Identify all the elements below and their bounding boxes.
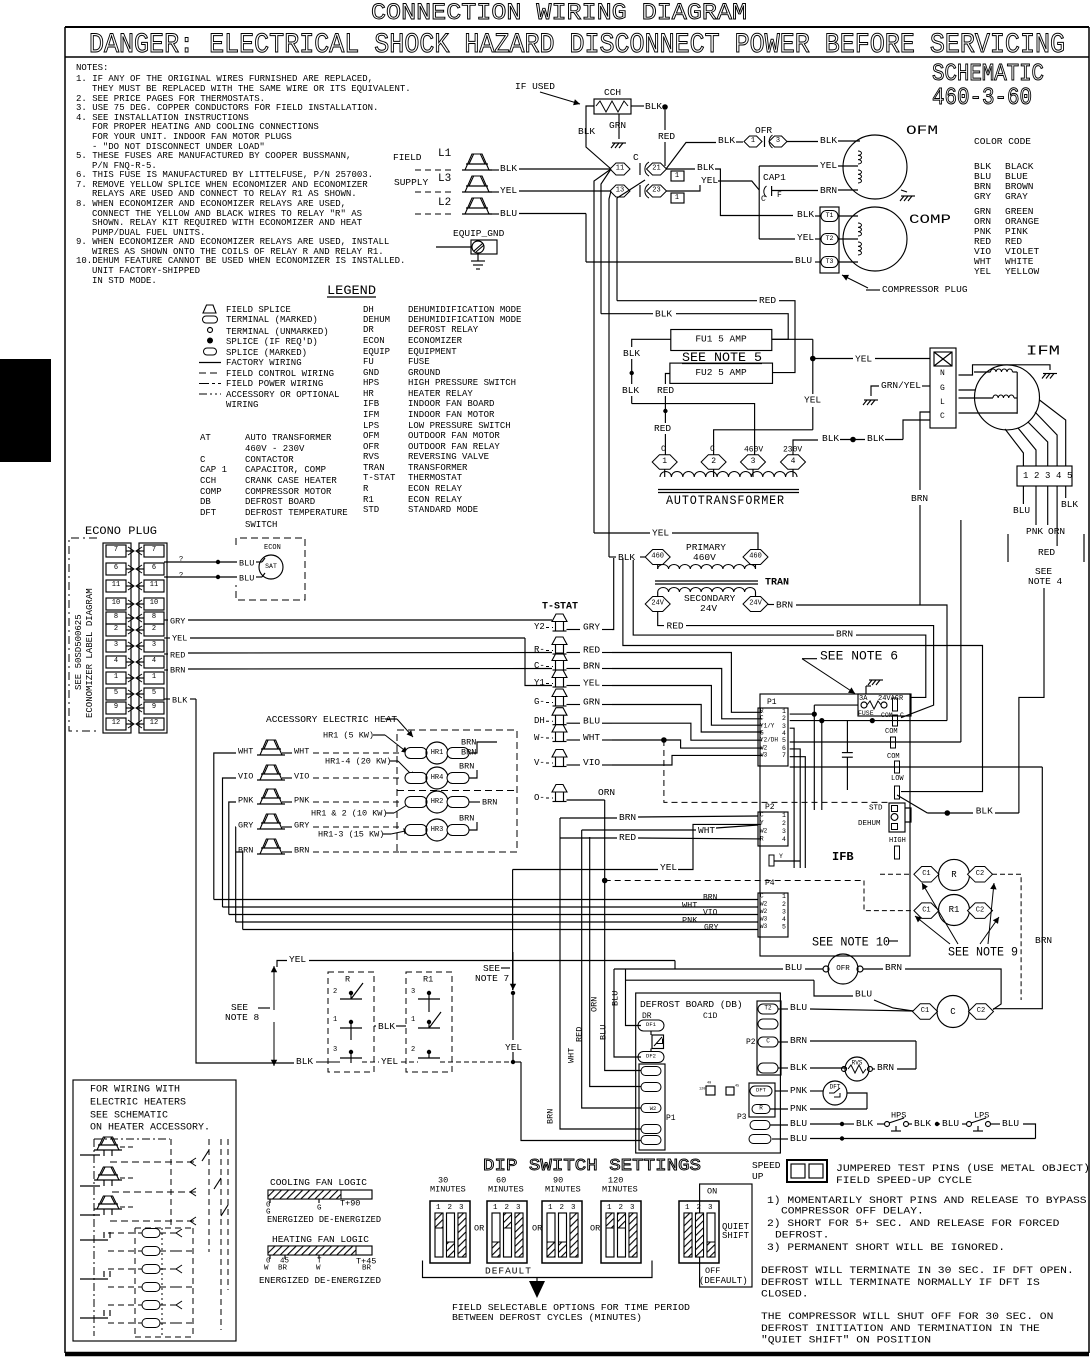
svg-text:SPLICE (MARKED): SPLICE (MARKED) (226, 348, 307, 358)
svg-text:P1: P1 (767, 698, 777, 707)
svg-text:L3: L3 (438, 173, 451, 185)
svg-text:EQUIP: EQUIP (363, 347, 390, 357)
frame border (65, 26, 1089, 28)
svg-text:2: 2 (711, 457, 716, 466)
svg-text:STANDARD MODE: STANDARD MODE (408, 505, 478, 515)
svg-text:COMP: COMP (909, 212, 951, 227)
black tab left margin (0, 359, 51, 462)
svg-text:R1: R1 (363, 495, 374, 505)
svg-text:2: 2 (448, 1204, 453, 1212)
terminal box 1 top (671, 171, 684, 181)
svg-text:BRN: BRN (459, 761, 474, 771)
wire BRN t-stat to P1 C (612, 669, 762, 719)
heater relay HR3 (405, 825, 427, 836)
svg-text:OFR: OFR (836, 965, 850, 973)
bracket to arrow (423, 1261, 653, 1278)
svg-text:7: 7 (152, 546, 156, 554)
svg-text:NOTE 4: NOTE 4 (1028, 576, 1063, 587)
svg-text:6: 6 (152, 564, 156, 572)
svg-text:WHT: WHT (682, 900, 697, 910)
econ SAT sensor (259, 555, 283, 579)
wire see note 4 to IFB BLK (1019, 588, 1044, 813)
svg-text:1: 1 (333, 1016, 337, 1024)
svg-text:1: 1 (782, 812, 786, 819)
svg-text:4: 4 (152, 657, 156, 665)
wire BLU to DF1 (626, 980, 642, 1025)
svg-text:460V - 230V: 460V - 230V (245, 444, 305, 454)
econo pin 2 right (144, 624, 164, 636)
svg-text:CONNECTION WIRING DIAGRAM: CONNECTION WIRING DIAGRAM (371, 0, 747, 26)
svg-text:DF1: DF1 (646, 1021, 657, 1028)
quiet shift outer box (700, 1184, 752, 1287)
svg-text:BRN: BRN (703, 894, 718, 903)
svg-text:LEGEND: LEGEND (327, 283, 376, 298)
svg-text:RED: RED (619, 832, 636, 843)
svg-text:RED: RED (583, 645, 600, 656)
svg-text:DFT: DFT (756, 1087, 767, 1094)
arrow to CCH (540, 92, 580, 104)
heater relay HR2 (405, 797, 427, 808)
compressor plug box (820, 207, 839, 273)
svg-text:W-: W- (534, 733, 545, 743)
svg-text:ECONOMIZER LABEL DIAGRAM: ECONOMIZER LABEL DIAGRAM (85, 588, 95, 718)
defrost relay component (650, 1031, 652, 1035)
svg-text:SEE NOTE 10: SEE NOTE 10 (812, 935, 890, 949)
wire ORN from t-stat O to defrost P1 (602, 878, 608, 884)
econo pin 12 right (144, 718, 164, 730)
svg-text:COMPRESSOR PLUG: COMPRESSOR PLUG (882, 284, 968, 295)
svg-text:?: ? (179, 572, 183, 580)
svg-text:WHT: WHT (294, 746, 309, 756)
svg-text:DEFROST TEMPERATURE: DEFROST TEMPERATURE (245, 508, 348, 518)
svg-text:YEL: YEL (172, 633, 187, 643)
svg-text:T-STAT: T-STAT (363, 473, 396, 483)
svg-text:10.DEHUM FEATURE CANNOT BE USE: 10.DEHUM FEATURE CANNOT BE USED WHEN ECO… (76, 256, 405, 266)
defrost board lower terminals (750, 1121, 770, 1130)
svg-text:BLK: BLK (655, 309, 672, 320)
econ relay R row (914, 867, 939, 883)
econo pin 11 right (144, 580, 164, 592)
svg-text:3. USE 75 DEG. COPPER CONDUCTO: 3. USE 75 DEG. COPPER CONDUCTORS FOR FIE… (76, 103, 378, 113)
svg-text:DEHUMIDIFICATION MODE: DEHUMIDIFICATION MODE (408, 305, 521, 315)
wire BLK from IFB to see note 4 drop (945, 810, 951, 816)
svg-text:G: G (317, 1205, 322, 1213)
econo pin 4 right (144, 656, 164, 668)
cooling fan logic bar (268, 1190, 372, 1199)
ground right of IFM (1043, 373, 1057, 375)
svg-text:COMPRESSOR OFF DELAY.: COMPRESSOR OFF DELAY. (781, 1205, 924, 1217)
svg-text:PNK: PNK (682, 915, 698, 925)
svg-text:YEL: YEL (505, 1042, 522, 1053)
svg-text:BLU: BLU (610, 991, 620, 1006)
transformer primary terminal 460 left (645, 550, 670, 565)
svg-text:YEL: YEL (701, 175, 718, 186)
svg-text:BLU: BLU (795, 255, 812, 266)
svg-text:BR: BR (278, 1265, 288, 1273)
svg-text:3: 3 (776, 137, 780, 145)
svg-text:6: 6 (782, 745, 786, 752)
svg-text:SPLICE (IF REQ'D): SPLICE (IF REQ'D) (226, 337, 318, 347)
heat wires vertical drops to bus (214, 753, 236, 900)
svg-text:Y1/Y: Y1/Y (760, 723, 775, 730)
svg-text:VIO: VIO (238, 771, 253, 781)
svg-text:OR: OR (474, 1223, 484, 1233)
svg-text:T2: T2 (764, 1005, 772, 1012)
svg-text:21: 21 (652, 165, 660, 173)
wire from P1 R pin to fuse (790, 713, 815, 715)
wire VIO t-stat to P1 W3 (612, 755, 762, 765)
svg-text:1: 1 (1023, 471, 1028, 481)
wire RED drop to defrost P1 (590, 837, 641, 1087)
wire BLU from LPS corner down to return (1023, 1124, 1036, 1139)
svg-text:BLU: BLU (239, 558, 254, 568)
svg-text:P2: P2 (765, 803, 775, 812)
svg-text:VIO: VIO (703, 909, 718, 918)
svg-text:REVERSING VALVE: REVERSING VALVE (408, 452, 489, 462)
svg-text:8: 8 (152, 613, 156, 621)
svg-text:ECON: ECON (363, 336, 385, 346)
svg-text:WHT: WHT (583, 732, 600, 743)
wire see note 4 to LPS BLU (1044, 1123, 1046, 1125)
field splice L1 (415, 169, 455, 171)
svg-text:BLK: BLK (790, 1062, 807, 1073)
svg-text:CRANK CASE HEATER: CRANK CASE HEATER (245, 476, 337, 486)
svg-text:DEHUMIDIFICATION MODE: DEHUMIDIFICATION MODE (408, 315, 521, 325)
svg-text:24VAC: 24VAC (878, 695, 899, 703)
svg-text:ECON RELAY: ECON RELAY (408, 484, 463, 494)
svg-text:EQUIPMENT: EQUIPMENT (408, 347, 457, 357)
transformer secondary winding (658, 588, 756, 593)
svg-text:MINUTES: MINUTES (430, 1184, 466, 1194)
svg-text:ORN: ORN (598, 787, 615, 798)
svg-text:T+90: T+90 (340, 1198, 360, 1208)
transformer secondary terminal 24V left (645, 597, 670, 612)
svg-text:C: C (950, 1007, 956, 1017)
svg-text:SAT: SAT (265, 563, 277, 570)
svg-text:24V: 24V (700, 603, 717, 614)
svg-text:SEE NOTE 9: SEE NOTE 9 (948, 945, 1018, 959)
svg-text:IFB: IFB (832, 850, 854, 864)
compressor terminal T2 (821, 234, 838, 245)
svg-text:23: 23 (652, 187, 660, 195)
svg-text:(DEFAULT): (DEFAULT) (699, 1276, 748, 1286)
svg-text:HR1-3 (15 KW): HR1-3 (15 KW) (318, 829, 384, 839)
defrost thermostat DFT (823, 1081, 847, 1105)
legend field power wiring symbol (199, 383, 221, 385)
svg-text:RELAYS ARE USED AND CONNECT TO: RELAYS ARE USED AND CONNECT TO RELAY R1 … (92, 189, 357, 199)
svg-text:YEL: YEL (381, 1056, 398, 1067)
svg-text:3: 3 (782, 908, 786, 915)
svg-text:2: 2 (505, 1204, 510, 1212)
wire VIO dashed to HR (313, 777, 400, 779)
svg-text:5: 5 (1067, 471, 1072, 481)
svg-text:2: 2 (114, 625, 118, 633)
svg-text:BRN: BRN (885, 962, 902, 973)
contact bars 13-23 (639, 185, 641, 197)
econo plug left column (103, 543, 131, 733)
svg-text:BRN: BRN (461, 747, 476, 757)
svg-text:BRN: BRN (238, 845, 253, 855)
svg-text:3: 3 (751, 457, 756, 466)
svg-text:BLK: BLK (822, 433, 839, 444)
defrost board P2 connector (757, 1001, 781, 1075)
svg-text:IN STD MODE.: IN STD MODE. (92, 276, 157, 286)
svg-text:460: 460 (651, 553, 664, 561)
svg-text:R: R (363, 484, 369, 494)
contactor terminal 23 (647, 185, 667, 197)
svg-text:G: G (760, 730, 764, 737)
compressor terminal T3 (821, 257, 838, 268)
svg-text:PNK: PNK (790, 1103, 807, 1114)
svg-text:BRN: BRN (459, 813, 474, 823)
svg-text:DFT: DFT (200, 508, 217, 518)
econo pin 9 right (144, 702, 164, 714)
svg-text:5: 5 (152, 689, 156, 697)
wire YEL drop to defrost P1 bottom (521, 1062, 641, 1141)
wire WHT t-stat to P1 W2 (612, 740, 762, 748)
svg-text:ECONOMIZER: ECONOMIZER (408, 336, 463, 346)
svg-text:2: 2 (697, 1204, 702, 1212)
svg-text:YEL: YEL (289, 954, 306, 965)
ground right of OFM (901, 195, 915, 197)
svg-text:PNK: PNK (294, 795, 310, 805)
svg-text:SPEED: SPEED (752, 1160, 781, 1171)
svg-text:7: 7 (782, 752, 786, 759)
transformer primary terminal 460 right (743, 550, 768, 565)
svg-text:YEL: YEL (500, 185, 517, 196)
svg-text:IF USED: IF USED (515, 81, 555, 92)
svg-text:DEFROST RELAY: DEFROST RELAY (408, 325, 479, 335)
ground above IFB (869, 679, 883, 681)
svg-text:AUTOTRANSFORMER: AUTOTRANSFORMER (666, 493, 785, 508)
svg-text:1: 1 (662, 457, 667, 466)
svg-text:THE COMPRESSOR WILL SHUT OFF F: THE COMPRESSOR WILL SHUT OFF FOR 30 SEC.… (761, 1311, 1053, 1323)
svg-text:T1: T1 (826, 212, 834, 219)
svg-text:2: 2 (411, 1046, 415, 1054)
svg-text:8. WHEN ECONOMIZER AND ECONOMI: 8. WHEN ECONOMIZER AND ECONOMIZER RELAYS… (76, 199, 346, 209)
svg-text:460V: 460V (744, 446, 763, 455)
bracket see note 4 (1007, 534, 1009, 562)
contactor coil C row (913, 1004, 938, 1020)
svg-text:4: 4 (791, 457, 796, 466)
defrost relay DR terminal DF1 (638, 1020, 664, 1031)
svg-text:BLU: BLU (790, 1118, 807, 1129)
svg-text:W2: W2 (760, 828, 768, 835)
svg-text:W2: W2 (760, 901, 768, 908)
svg-text:C: C (940, 412, 945, 421)
svg-text:4: 4 (1056, 471, 1061, 481)
wire GRY dashed to HR (313, 826, 400, 828)
svg-text:WHT: WHT (566, 1048, 576, 1063)
svg-text:COM: COM (885, 728, 898, 736)
svg-text:24V: 24V (749, 600, 762, 608)
IFB third COM wire (790, 766, 1043, 768)
wire from P1 C pin junction (819, 718, 824, 723)
svg-text:BLK: BLK (856, 1118, 873, 1129)
svg-text:BRN: BRN (776, 600, 793, 611)
svg-text:3: 3 (571, 1204, 576, 1212)
svg-text:11: 11 (150, 581, 158, 589)
svg-text:BLU: BLU (785, 962, 802, 973)
wire BRN drop left (560, 818, 641, 1129)
svg-text:1: 1 (782, 708, 786, 715)
svg-text:ON HEATER ACCESSORY.: ON HEATER ACCESSORY. (90, 1123, 210, 1134)
svg-text:1: 1 (675, 194, 679, 202)
dashed wire from WHT dot down (664, 740, 889, 802)
svg-text:FU2 5 AMP: FU2 5 AMP (695, 367, 747, 378)
svg-text:R: R (951, 870, 957, 880)
wire N over motor to ground (959, 365, 1051, 375)
contactor terminal 13 (610, 185, 630, 197)
wire junction 21 to OFR (666, 143, 716, 170)
svg-text:COMPRESSOR MOTOR: COMPRESSOR MOTOR (245, 487, 332, 497)
svg-text:1: 1 (411, 1016, 415, 1024)
svg-text:460V: 460V (693, 552, 716, 563)
econ relay R1 row (914, 903, 939, 919)
svg-text:11: 11 (616, 165, 624, 173)
svg-text:2: 2 (333, 988, 337, 996)
econo plug right column (139, 543, 167, 733)
svg-text:3: 3 (459, 1204, 464, 1212)
IFB Y terminal (769, 855, 774, 866)
svg-text:LPS: LPS (363, 421, 379, 431)
svg-text:CAPACITOR, COMP: CAPACITOR, COMP (245, 465, 326, 475)
svg-text:T-STAT: T-STAT (542, 602, 578, 613)
transformer primary winding (657, 565, 659, 570)
svg-text:P2: P2 (746, 1038, 756, 1047)
svg-text:1: 1 (152, 673, 156, 681)
contactor terminal 21 (647, 163, 667, 175)
svg-text:TRAN: TRAN (363, 463, 385, 473)
svg-text:CCH: CCH (604, 87, 621, 98)
svg-text:460: 460 (749, 553, 762, 561)
svg-text:EQUIP_GND: EQUIP_GND (453, 228, 505, 239)
svg-text:GRY: GRY (704, 924, 719, 933)
svg-text:4: 4 (782, 730, 786, 737)
svg-text:DEHUM: DEHUM (363, 315, 390, 325)
contactor drop verticals (594, 169, 611, 533)
svg-text:BLU: BLU (239, 573, 254, 583)
svg-text:YEL: YEL (583, 678, 600, 689)
wire BRN via x633 to IFB R terminal (633, 560, 834, 635)
svg-text:ACCESSORY OR OPTIONAL: ACCESSORY OR OPTIONAL (226, 390, 339, 400)
svg-text:ORN: ORN (589, 997, 599, 1012)
svg-text:THEY MUST BE REPLACED WITH THE: THEY MUST BE REPLACED WITH THE SAME WIRE… (92, 84, 411, 94)
svg-text:THERMOSTAT: THERMOSTAT (408, 473, 463, 483)
svg-text:C: C (633, 152, 639, 163)
econ relay R dashed box (328, 972, 374, 1072)
svg-text:SEE 50SD500625: SEE 50SD500625 (74, 614, 84, 690)
heater accessory dash-dot frame (93, 1139, 95, 1336)
wire RED from secondary to IFB (658, 612, 664, 626)
svg-text:DF2: DF2 (646, 1053, 656, 1060)
svg-text:UNIT FACTORY-SHIPPED: UNIT FACTORY-SHIPPED (92, 266, 200, 276)
terminal box 1 bottom (671, 193, 684, 203)
svg-text:N: N (940, 369, 945, 378)
legend field splice symbol (203, 305, 216, 313)
svg-text:FUSE: FUSE (408, 357, 430, 367)
svg-text:BLU: BLU (583, 715, 600, 726)
defrost board P1 connector (639, 1064, 665, 1150)
splice dot on WHT wire (661, 737, 667, 743)
svg-text:OFR: OFR (755, 125, 772, 136)
svg-text:W3: W3 (760, 916, 768, 923)
svg-text:YEL: YEL (804, 395, 821, 406)
svg-text:T2: T2 (826, 235, 834, 242)
svg-text:R: R (760, 708, 764, 715)
svg-text:SWITCH: SWITCH (245, 520, 277, 530)
svg-text:2: 2 (619, 1204, 624, 1212)
svg-text:BLK: BLK (172, 695, 188, 705)
svg-text:GROUND: GROUND (408, 368, 440, 378)
heater accessory dashed rows upper (110, 1161, 198, 1163)
svg-text:W3: W3 (760, 923, 768, 930)
svg-text:BLK: BLK (867, 433, 884, 444)
svg-text:NOTES:: NOTES: (76, 63, 108, 73)
econo pin 7 left (106, 545, 126, 557)
svg-text:IFB: IFB (363, 399, 380, 409)
svg-text:BRN: BRN (294, 845, 309, 855)
svg-text:C2: C2 (976, 870, 984, 878)
svg-text:C2: C2 (977, 1007, 985, 1015)
svg-text:F: F (777, 191, 782, 200)
svg-text:2: 2 (1034, 471, 1039, 481)
svg-text:12: 12 (150, 719, 158, 727)
svg-text:YEL: YEL (797, 232, 814, 243)
svg-text:BRN: BRN (619, 812, 636, 823)
svg-text:HR3: HR3 (431, 826, 444, 834)
fuse FU1 (671, 330, 772, 351)
contactor terminal 11 (610, 163, 630, 175)
svg-text:GRY: GRY (294, 820, 309, 830)
svg-text:L2: L2 (438, 197, 451, 209)
contact bars 11-21 (639, 163, 641, 175)
svg-text:GRN: GRN (609, 120, 626, 131)
svg-text:GRN/YEL: GRN/YEL (881, 380, 921, 391)
svg-text:C1: C1 (922, 906, 930, 914)
svg-text:ECONO PLUG: ECONO PLUG (85, 526, 157, 538)
svg-text:G: G (940, 384, 945, 393)
svg-text:ECON RELAY: ECON RELAY (408, 495, 463, 505)
svg-text:12: 12 (112, 719, 120, 727)
svg-text:ENERGIZED DE-ENERGIZED: ENERGIZED DE-ENERGIZED (259, 1275, 381, 1286)
svg-text:BR: BR (362, 1265, 372, 1273)
svg-text:IFM: IFM (1026, 344, 1060, 360)
svg-text:FIELD SPEED-UP CYCLE: FIELD SPEED-UP CYCLE (836, 1175, 972, 1187)
svg-text:5: 5 (782, 737, 786, 744)
svg-text:V-: V- (534, 758, 545, 768)
defrost relay DR terminal DF2 (638, 1052, 664, 1063)
heating fan logic bar (268, 1246, 372, 1255)
svg-text:9: 9 (152, 703, 156, 711)
svg-text:PNK: PNK (790, 1085, 807, 1096)
svg-text:RVS: RVS (363, 452, 379, 462)
svg-text:P3: P3 (737, 1113, 747, 1122)
econ switch dashed box (236, 538, 305, 600)
svg-text:DH: DH (363, 305, 374, 315)
svg-text:R: R (759, 1105, 763, 1112)
econo pin 7 right (144, 545, 164, 557)
svg-text:W2: W2 (760, 745, 768, 752)
svg-text:HR1 (5 KW): HR1 (5 KW) (323, 730, 374, 740)
svg-text:3) PERMANENT SHORT WILL BE IGN: 3) PERMANENT SHORT WILL BE IGNORED. (767, 1242, 1005, 1254)
wire BLU t-stat to P1 Y2/DH (612, 723, 762, 740)
svg-text:R1: R1 (423, 974, 433, 984)
svg-text:Y2: Y2 (534, 622, 545, 632)
svg-text:DEFROST BOARD (DB): DEFROST BOARD (DB) (640, 999, 743, 1010)
svg-text:FU1 5 AMP: FU1 5 AMP (695, 334, 747, 345)
svg-text:HEATER RELAY: HEATER RELAY (408, 389, 473, 399)
